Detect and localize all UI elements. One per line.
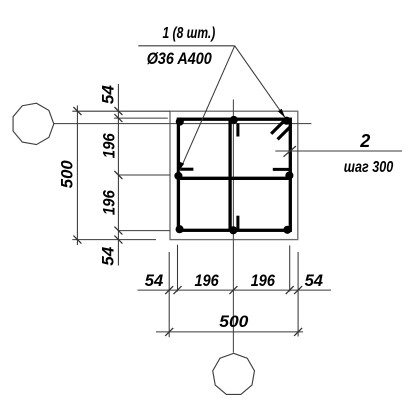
stirrup (closed tie) — [178, 119, 290, 230]
svg-text:2: 2 — [359, 131, 370, 151]
svg-text:196: 196 — [100, 133, 118, 159]
rebar top-left — [176, 118, 184, 126]
extension line below right rebar — [289, 246, 291, 292]
leader to top-right rebar — [235, 46, 285, 117]
ticks on left inner dim line — [114, 107, 122, 244]
concrete column outline — [170, 111, 298, 239]
ticks on bottom inner dim line — [165, 286, 302, 294]
svg-text:500: 500 — [58, 160, 76, 189]
stirrup hook 1 top-right — [271, 121, 284, 134]
svg-text:54: 54 — [145, 272, 163, 290]
horizontal centerline from section symbol — [54, 123, 312, 125]
rebar top-right — [283, 117, 291, 125]
svg-text:196: 196 — [195, 272, 220, 290]
arrowhead top-right — [278, 109, 285, 118]
extension line below left rebar — [177, 245, 179, 292]
tie hook left — [179, 168, 194, 171]
extension line middle — [118, 174, 170, 176]
rebar top-middle — [230, 116, 238, 124]
extension line top rebar — [114, 117, 168, 119]
rebar bottom-left — [176, 225, 184, 233]
extension line top edge — [72, 110, 170, 112]
svg-text:Ø36 A400: Ø36 A400 — [147, 49, 213, 68]
dimension line bottom inner — [138, 289, 332, 291]
extension line bottom rebar — [118, 230, 170, 232]
ticks on bottom 500 dim line — [165, 328, 302, 336]
svg-text:196: 196 — [100, 190, 118, 216]
rebar middle-right — [285, 171, 293, 179]
extension line below left edge — [168, 252, 170, 337]
extension line below right edge — [297, 252, 299, 337]
vertical centerline — [232, 100, 234, 353]
ticks on left 500 dim line — [73, 107, 81, 244]
internal tie horizontal — [178, 177, 291, 180]
tie hook bottom — [236, 216, 239, 231]
svg-text:196: 196 — [251, 272, 276, 290]
section symbol left (nonagon) — [13, 103, 54, 144]
rebar middle-left — [174, 172, 182, 180]
rebar bottom-right — [283, 226, 291, 234]
section symbol bottom (nonagon) — [213, 353, 255, 394]
tie hook right — [273, 168, 291, 171]
svg-text:1 (8 шт.): 1 (8 шт.) — [163, 25, 216, 42]
dimension line bottom 500 — [156, 331, 303, 333]
rebar bottom-middle — [229, 226, 237, 234]
dimension line vertical 500 — [76, 106, 78, 246]
internal tie vertical — [228, 119, 231, 230]
dimension line vertical inner — [117, 84, 119, 266]
svg-text:54: 54 — [99, 247, 117, 266]
leader line label 2 — [275, 150, 402, 152]
leader to middle-left rebar — [179, 46, 235, 172]
stirrup hook 2 top-right — [278, 126, 291, 139]
slash at stirrup for label 2 — [284, 146, 296, 157]
leader underline label 1 — [138, 45, 234, 47]
svg-text:500: 500 — [219, 313, 249, 331]
svg-text:54: 54 — [305, 272, 323, 290]
svg-text:54: 54 — [100, 85, 118, 104]
tie hook top — [236, 123, 239, 136]
svg-text:шаг 300: шаг 300 — [344, 159, 393, 176]
arrowhead middle-left — [178, 162, 184, 172]
extension line bottom edge — [72, 239, 156, 241]
